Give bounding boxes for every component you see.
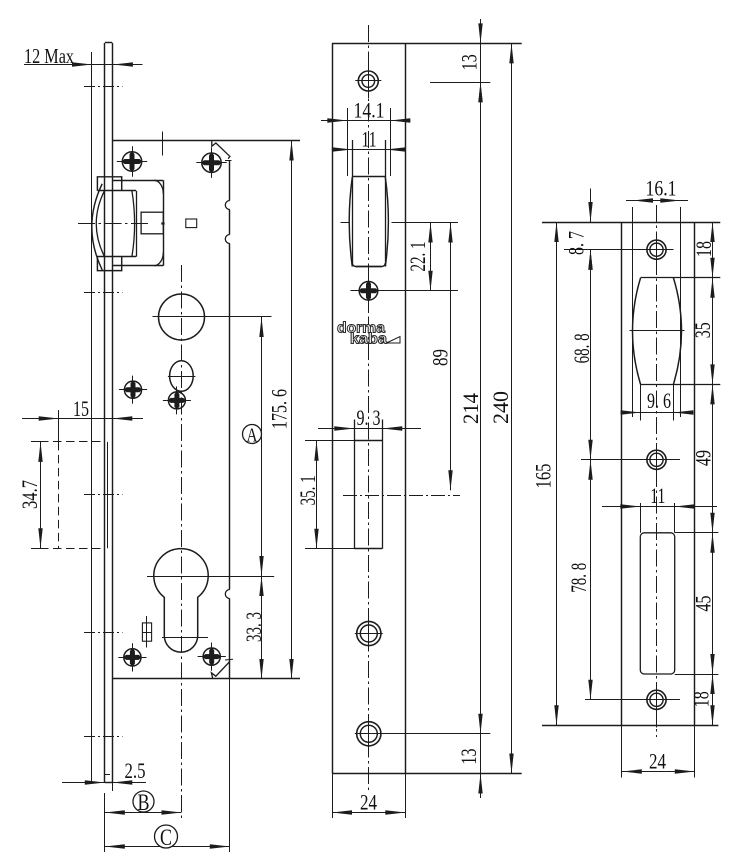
- svg-text:18: 18: [688, 691, 713, 707]
- svg-text:22. 1: 22. 1: [405, 242, 430, 272]
- svg-text:78. 8: 78. 8: [566, 563, 591, 593]
- svg-text:35. 1: 35. 1: [295, 475, 320, 505]
- svg-text:89: 89: [427, 349, 452, 366]
- svg-text:13: 13: [456, 54, 481, 70]
- svg-text:13: 13: [456, 749, 481, 765]
- svg-text:33. 3: 33. 3: [241, 612, 266, 642]
- svg-text:14.1: 14.1: [354, 97, 385, 122]
- svg-text:24: 24: [360, 789, 377, 814]
- svg-text:45: 45: [690, 596, 715, 612]
- svg-text:68. 8: 68. 8: [569, 333, 594, 363]
- svg-text:8. 7: 8. 7: [563, 231, 588, 255]
- svg-text:214: 214: [458, 393, 483, 424]
- svg-text:2.5: 2.5: [125, 758, 146, 783]
- svg-text:15: 15: [73, 396, 89, 421]
- svg-text:11: 11: [650, 483, 665, 508]
- svg-text:kaba: kaba: [350, 331, 388, 348]
- svg-text:18: 18: [691, 241, 716, 257]
- svg-text:9. 6: 9. 6: [647, 388, 671, 413]
- svg-text:240: 240: [488, 391, 513, 424]
- svg-text:175. 6: 175. 6: [266, 389, 291, 429]
- svg-text:16.1: 16.1: [646, 175, 677, 200]
- svg-text:165: 165: [531, 464, 556, 489]
- svg-text:B: B: [138, 790, 150, 815]
- svg-text:24: 24: [649, 748, 666, 773]
- svg-text:C: C: [160, 825, 172, 850]
- svg-text:49: 49: [690, 450, 715, 466]
- svg-text:11: 11: [362, 126, 377, 151]
- svg-text:9. 3: 9. 3: [357, 405, 381, 430]
- svg-text:34.7: 34.7: [17, 480, 42, 509]
- svg-text:A: A: [247, 425, 258, 447]
- svg-text:35: 35: [690, 322, 715, 338]
